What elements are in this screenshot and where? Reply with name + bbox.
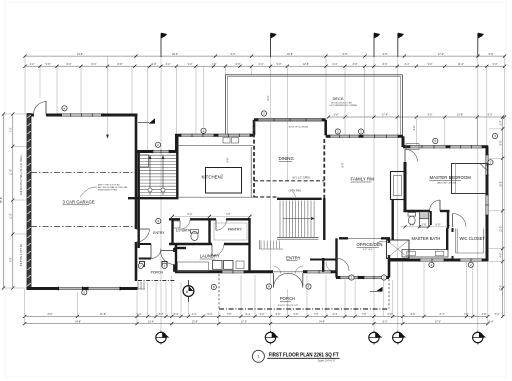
- office west wall: [335, 238, 337, 277]
- svg-text:7'-0": 7'-0": [314, 313, 319, 316]
- svg-text:3'-0": 3'-0": [174, 313, 179, 316]
- svg-text:PANTRY: PANTRY: [228, 228, 243, 232]
- laundry sink: [236, 261, 244, 269]
- bath toilet: [191, 231, 198, 240]
- title circle: [252, 350, 264, 362]
- svg-text:8'-8": 8'-8": [411, 313, 416, 316]
- pantry north wall: [169, 218, 180, 220]
- svg-text:5'-0": 5'-0": [188, 213, 193, 216]
- svg-text:FAMILY RM: FAMILY RM: [351, 177, 375, 182]
- kitchen island: [206, 168, 242, 194]
- dining dashed mid line: [254, 180, 324, 182]
- bath door arc: [181, 219, 191, 229]
- left dim line outer: [3, 114, 5, 288]
- center stair top wall: [277, 198, 322, 200]
- svg-text:Scale: 1/4"=1'-0": Scale: 1/4"=1'-0": [318, 360, 336, 363]
- bath interior dim: [400, 226, 448, 228]
- svg-text:3'-2": 3'-2": [166, 63, 171, 66]
- kitchen north window: [153, 150, 169, 152]
- front door leaf/arc: [161, 250, 175, 252]
- kitchen sink: [223, 138, 230, 144]
- family east wall: [392, 200, 394, 241]
- svg-text:8 BLK OF GL WNDW: 8 BLK OF GL WNDW: [289, 127, 308, 129]
- top dimension line A: [25, 55, 505, 57]
- svg-text:5'-0": 5'-0": [495, 313, 500, 316]
- bay windows: [181, 134, 214, 136]
- svg-text:MASTER BEDROOM: MASTER BEDROOM: [430, 175, 472, 180]
- svg-text:6'-4": 6'-4": [267, 95, 270, 100]
- svg-text:13'-4": 13'-4": [148, 320, 154, 323]
- garage corner section triangle: [149, 118, 155, 123]
- svg-text:7'-8": 7'-8": [226, 213, 231, 216]
- svg-text:7'-8": 7'-8": [212, 63, 217, 66]
- grid line: [477, 38, 479, 330]
- porch column 2: [162, 262, 167, 267]
- shower: [420, 212, 429, 219]
- svg-text:6'-4": 6'-4": [405, 63, 410, 66]
- grid line: [270, 38, 272, 330]
- left dim line inner: [12, 114, 14, 288]
- garage top window: [60, 114, 103, 116]
- garage dashed bay line 2: [31, 226, 135, 228]
- garage dashed bay line 1: [31, 172, 135, 174]
- stair right wall: [176, 134, 178, 199]
- laundry west wall: [175, 244, 177, 272]
- svg-text:OFFICE/DEN: OFFICE/DEN: [357, 242, 383, 247]
- laundry-entry wall: [248, 218, 250, 272]
- garage door 1: [59, 287, 83, 289]
- keynote circles: [62, 106, 67, 111]
- svg-text:7'-8": 7'-8": [227, 313, 232, 316]
- fireplace: [391, 172, 405, 200]
- svg-text:8'-0": 8'-0": [231, 53, 236, 56]
- pantry south wall: [169, 243, 212, 245]
- svg-text:6'-4": 6'-4": [333, 313, 338, 316]
- center stair arrow: [283, 218, 312, 220]
- dining slider wall: [254, 118, 326, 121]
- svg-text:6'-8": 6'-8": [294, 313, 299, 316]
- svg-text:3'-0": 3'-0": [499, 120, 502, 125]
- closet x-box: [387, 240, 410, 259]
- porch slab edge: [138, 280, 175, 282]
- garage left wall: [27, 114, 31, 290]
- garage door 2: [88, 287, 120, 289]
- svg-text:9'-8": 9'-8": [227, 157, 230, 162]
- master step wall: [402, 136, 405, 147]
- grid circle marker: [473, 331, 487, 345]
- svg-text:3'-8": 3'-8": [482, 313, 487, 316]
- svg-text:17'-0": 17'-0": [438, 53, 444, 56]
- porch steps: [137, 282, 139, 290]
- svg-text:8'-0": 8'-0": [499, 140, 502, 145]
- svg-text:15'-8": 15'-8": [192, 320, 198, 323]
- garage-entry door arc: [136, 228, 150, 230]
- svg-text:7'-8": 7'-8": [464, 313, 469, 316]
- grid circle marker: [393, 331, 407, 345]
- stair-family wall: [323, 198, 325, 240]
- svg-text:8'-8": 8'-8": [118, 63, 123, 66]
- svg-text:6'-8": 6'-8": [388, 313, 393, 316]
- entry double doors: [273, 273, 275, 287]
- svg-text:VAULTED CEILING: VAULTED CEILING: [437, 181, 456, 184]
- wic south divider: [452, 256, 454, 260]
- stair arrows left: [149, 158, 151, 195]
- extension lines bottom: [24, 289, 26, 324]
- office north stubs: [339, 237, 348, 239]
- extension lines top: [24, 57, 26, 115]
- svg-text:24'-8": 24'-8": [77, 53, 83, 56]
- svg-text:8'-0": 8'-0": [67, 63, 72, 66]
- porch right edge: [388, 279, 390, 309]
- grid flag marker: [478, 33, 484, 57]
- svg-text:11'-0": 11'-0": [458, 63, 464, 66]
- svg-text:BMT TYPE X GYP BD: BMT TYPE X GYP BD: [98, 184, 120, 186]
- hallway interior dim: [173, 215, 251, 217]
- bed: [452, 164, 488, 194]
- bath pantry divider: [208, 219, 210, 243]
- big circle marker A: [183, 280, 194, 302]
- svg-text:6'-8": 6'-8": [353, 63, 358, 66]
- svg-text:8'-0": 8'-0": [383, 63, 388, 66]
- porch front edge: [219, 308, 389, 310]
- grid flag marker: [271, 33, 277, 57]
- kitchen south edge: [177, 196, 254, 198]
- svg-text:8'-0": 8'-0": [488, 114, 493, 117]
- svg-text:6'-0": 6'-0": [493, 63, 498, 66]
- window mullions: [59, 113, 61, 116]
- center stair bottom rail: [277, 237, 319, 239]
- entry closet: [137, 199, 139, 248]
- stair treads left: [140, 154, 176, 156]
- window seat: [406, 144, 419, 150]
- svg-text:6'-4": 6'-4": [259, 63, 264, 66]
- bath-wic wall: [446, 229, 448, 251]
- svg-text:9'-8": 9'-8": [152, 63, 157, 66]
- suite south wall: [389, 259, 488, 262]
- grid circle marker: [156, 331, 170, 345]
- svg-text:8'-0": 8'-0": [342, 162, 345, 167]
- svg-text:FIRST FLOOR PLAN 2261 SQ FT: FIRST FLOOR PLAN 2261 SQ FT: [269, 352, 339, 358]
- svg-text:9'-6": 9'-6": [428, 63, 433, 66]
- svg-text:17'-0": 17'-0": [241, 320, 247, 323]
- svg-text:16'-8": 16'-8": [499, 181, 502, 187]
- vanity: [402, 250, 448, 258]
- office door arcs: [336, 258, 338, 272]
- right dim line: [502, 117, 504, 317]
- svg-text:3'-4": 3'-4": [159, 313, 164, 316]
- section triangle office: [376, 287, 382, 292]
- svg-text:9'-0": 9'-0": [188, 63, 193, 66]
- grid flag marker: [161, 33, 167, 57]
- plumbing wall: [447, 211, 449, 229]
- porch left edge: [218, 274, 220, 309]
- svg-text:2'-8": 2'-8": [422, 224, 427, 227]
- extension lines left: [4, 113, 28, 115]
- svg-text:9'-8": 9'-8": [383, 53, 388, 56]
- basement treads: [260, 241, 262, 249]
- svg-text:5'-8": 5'-8": [46, 63, 51, 66]
- svg-text:17'-0": 17'-0": [499, 285, 502, 291]
- keynote leader w/ arrow: [107, 57, 109, 136]
- svg-text:7'-0": 7'-0": [10, 127, 13, 132]
- wic rods: [455, 229, 457, 254]
- svg-text:9'-0" CLG: 9'-0" CLG: [363, 249, 373, 251]
- front door wall: [173, 248, 175, 252]
- dryer: [224, 261, 234, 270]
- office step wall: [388, 260, 391, 278]
- svg-text:WIC CLOSET: WIC CLOSET: [460, 236, 486, 241]
- garage side door leaf: [45, 101, 47, 115]
- hall closet wall: [310, 259, 336, 261]
- svg-text:PORCH: PORCH: [151, 270, 164, 274]
- svg-text:8'-4": 8'-4": [440, 313, 445, 316]
- svg-text:34'-8": 34'-8": [75, 320, 81, 323]
- svg-text:KITCHEN: KITCHEN: [202, 175, 221, 180]
- garage right wall: [135, 115, 138, 229]
- svg-text:5'-4": 5'-4": [137, 313, 142, 316]
- svg-text:21'-8": 21'-8": [100, 313, 106, 316]
- svg-text:6'-4": 6'-4": [333, 63, 338, 66]
- title underline: [267, 357, 340, 359]
- bottom dimension line 2: [25, 323, 488, 325]
- svg-text:4'-0": 4'-0": [260, 313, 265, 316]
- svg-text:BSMT&GRG STRG: BSMT&GRG STRG: [98, 190, 118, 192]
- bath west wall: [171, 219, 173, 244]
- svg-text:DET ERMINED BY OWNER: DET ERMINED BY OWNER: [330, 105, 358, 107]
- svg-text:ENTRY: ENTRY: [153, 231, 165, 235]
- svg-text:12'-8": 12'-8": [303, 63, 309, 66]
- svg-text:5'-8": 5'-8": [277, 63, 282, 66]
- grid circle marker: [265, 331, 279, 345]
- svg-text:3 CAR GARAGE: 3 CAR GARAGE: [63, 200, 95, 205]
- svg-text:11'-0": 11'-0": [10, 213, 13, 219]
- laundry door arc: [211, 244, 213, 256]
- entry closet door arc: [151, 249, 161, 259]
- kitchen counter: [177, 144, 253, 146]
- wic west wall: [452, 228, 454, 232]
- kitchen bay wall: [175, 134, 254, 137]
- master toilet: [408, 216, 415, 225]
- svg-text:8'-8": 8'-8": [489, 320, 494, 323]
- svg-text:5'-8": 5'-8": [334, 114, 339, 117]
- bath hall door arc: [439, 200, 441, 211]
- svg-text:57'-8": 57'-8": [0, 197, 3, 203]
- svg-text:4X4 PT POSTS TYP: 4X4 PT POSTS TYP: [278, 305, 299, 307]
- svg-text:8'-8": 8'-8": [343, 53, 348, 56]
- svg-text:1/2 BATH: 1/2 BATH: [176, 228, 191, 232]
- svg-text:DINING: DINING: [279, 156, 295, 161]
- svg-text:7'-8": 7'-8": [362, 313, 367, 316]
- svg-text:5'-8": 5'-8": [276, 313, 281, 316]
- grid line: [373, 38, 375, 330]
- svg-text:4'-8": 4'-8": [499, 252, 502, 257]
- svg-text:34'-8": 34'-8": [319, 320, 325, 323]
- svg-text:12'-0": 12'-0": [499, 226, 502, 232]
- master west wall: [404, 162, 407, 211]
- svg-text:1: 1: [257, 355, 259, 359]
- grid line: [160, 38, 162, 330]
- svg-text:8'-8": 8'-8": [236, 63, 241, 66]
- washer: [213, 261, 223, 270]
- top dimension line B: [25, 65, 505, 67]
- svg-text:7'-0": 7'-0": [10, 257, 13, 262]
- garage top wall: [31, 114, 34, 117]
- dining dashed side walls: [253, 121, 255, 197]
- svg-text:DECK: DECK: [333, 96, 344, 101]
- svg-text:5'-4": 5'-4": [246, 313, 251, 316]
- master north wall: [403, 145, 488, 148]
- svg-text:MASTER BATH: MASTER BATH: [412, 236, 441, 241]
- master east wall: [486, 147, 489, 262]
- svg-text:8'-0": 8'-0": [436, 224, 441, 227]
- svg-text:WOOD DECK TO BE: WOOD DECK TO BE: [331, 102, 352, 104]
- svg-text:11'-0": 11'-0": [10, 169, 13, 175]
- bath sink: [174, 221, 181, 228]
- extension lines right: [489, 128, 503, 130]
- grid flag marker: [374, 33, 380, 57]
- pantry shelves: [214, 223, 247, 240]
- kitchen fridge: [140, 155, 149, 167]
- stair left wall: [137, 152, 139, 199]
- grid flag marker: [398, 33, 404, 57]
- wic door arc: [452, 214, 454, 228]
- hall wall to suite: [388, 238, 390, 243]
- svg-text:2'-0": 2'-0": [410, 224, 415, 227]
- porch column 1: [140, 262, 145, 267]
- svg-text:9'-6": 9'-6": [428, 114, 433, 117]
- grid circle marker: [369, 331, 383, 345]
- garage side door arc: [33, 102, 46, 115]
- kitchen east counter: [250, 147, 252, 197]
- grid line: [397, 38, 399, 330]
- svg-text:42'-1 1/2" OPEN: 42'-1 1/2" OPEN: [292, 177, 310, 180]
- svg-text:4'-4": 4'-4": [192, 313, 197, 316]
- bottom dimension line 1: [25, 315, 488, 317]
- toilet alcove wall: [430, 211, 432, 225]
- svg-text:27'-0": 27'-0": [435, 320, 441, 323]
- master door leaf/arc: [405, 149, 417, 160]
- right local dim line above master: [328, 116, 505, 118]
- svg-text:8'-0": 8'-0": [92, 63, 97, 66]
- laundry counter: [178, 262, 209, 271]
- svg-text:ALL WOOD WALLS ORS GBL: ALL WOOD WALLS ORS GBL: [98, 186, 129, 189]
- family north wall: [326, 135, 403, 138]
- bay step wall: [175, 134, 178, 152]
- svg-text:LAUNDRY: LAUNDRY: [200, 254, 220, 259]
- bath north wall: [403, 210, 430, 212]
- garage note leader: [80, 187, 97, 197]
- svg-text:2X6 WD STUD WALL W/ R-21 INSUL: 2X6 WD STUD WALL W/ R-21 INSUL: [20, 154, 23, 195]
- office south wall: [336, 276, 389, 279]
- svg-text:17'-4": 17'-4": [382, 114, 388, 117]
- svg-text:5/8 TYPE X GYP BD: 5/8 TYPE X GYP BD: [20, 244, 23, 266]
- garage bottom wall: [27, 287, 138, 290]
- svg-text:3'-6": 3'-6": [413, 125, 416, 130]
- deck outline: [226, 74, 403, 76]
- stair bottom wall: [128, 197, 179, 199]
- svg-text:5'-0": 5'-0": [208, 313, 213, 316]
- center stair treads: [279, 201, 281, 238]
- svg-text:2'-2": 2'-2": [30, 63, 35, 66]
- svg-text:16'-8": 16'-8": [287, 53, 293, 56]
- svg-text:18'-0": 18'-0": [172, 53, 178, 56]
- porch back wall: [175, 270, 273, 273]
- svg-text:8'-0": 8'-0": [383, 320, 388, 323]
- svg-text:OPEN RAIL: OPEN RAIL: [289, 189, 302, 192]
- svg-text:8'-8": 8'-8": [48, 313, 53, 316]
- svg-text:10'-8": 10'-8": [457, 114, 463, 117]
- svg-text:5'-8": 5'-8": [489, 53, 494, 56]
- svg-text:ENTRY: ENTRY: [286, 256, 301, 261]
- kitchen north wall: [136, 150, 177, 153]
- svg-text:PORCH: PORCH: [280, 296, 295, 301]
- pantry door arc: [215, 219, 217, 230]
- entry door sill: [273, 271, 303, 273]
